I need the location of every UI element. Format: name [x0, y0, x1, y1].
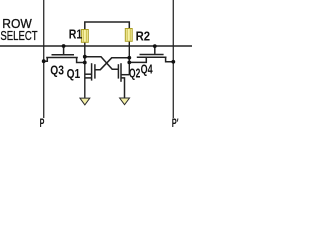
svg-text:Q4: Q4 [141, 62, 154, 77]
svg-text:R1: R1 [69, 27, 83, 42]
svg-text:SELECT: SELECT [0, 28, 37, 43]
svg-text:Q1: Q1 [67, 66, 81, 81]
svg-text:R2: R2 [136, 28, 151, 43]
svg-text:Q2: Q2 [129, 65, 140, 80]
svg-text:P: P [40, 118, 45, 128]
svg-text:P′: P′ [172, 118, 179, 128]
svg-text:Q3: Q3 [50, 62, 64, 77]
